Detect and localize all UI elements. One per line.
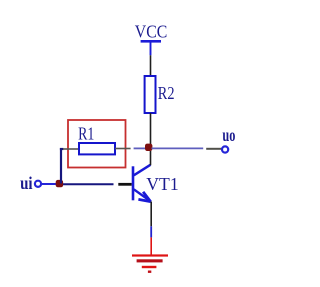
input terminal ui circle — [35, 181, 41, 187]
wire VCC bar to rail (blue segment) — [150, 43, 152, 56]
wire junction to output (purple) — [152, 147, 204, 149]
wire ground (red segment) — [150, 237, 152, 254]
wire corner at left of R1 (navy) — [60, 148, 64, 150]
ground symbol bar 1 — [132, 254, 168, 256]
base lead of VT1 (black) — [118, 183, 131, 186]
wire emitter to ground (black segment) — [150, 202, 152, 227]
svg-text:VCC: VCC — [135, 22, 168, 42]
VCC power bar symbol — [141, 40, 161, 43]
output terminal uo circle — [222, 146, 228, 152]
resistor R2 — [145, 76, 156, 113]
ground symbol bar 4 — [148, 271, 151, 273]
input junction node — [56, 180, 63, 187]
svg-text:R2: R2 — [158, 83, 175, 103]
wire input junction to base (navy) — [63, 183, 114, 185]
ground symbol bar 3 — [142, 266, 157, 268]
transistor VT1 emitter arrowhead — [138, 192, 150, 202]
wire to uo terminal (dark gray) — [206, 148, 221, 150]
transistor VT1 emitter line — [134, 189, 151, 201]
wire rail to R2 top (black segment) — [150, 55, 152, 76]
red highlight box around R1 — [68, 120, 126, 168]
wire input junction up to R1 branch (navy vertical) — [60, 148, 62, 184]
transistor VT1 base bar — [132, 166, 135, 200]
svg-text:ui: ui — [20, 173, 32, 193]
ground symbol bar 2 — [137, 259, 163, 262]
wire junction down to collector (black) — [150, 151, 152, 165]
junction node (collector node) — [145, 144, 152, 151]
svg-text:R1: R1 — [78, 124, 94, 144]
wire to junction (purple) — [134, 147, 145, 149]
svg-text:uo: uo — [222, 125, 235, 145]
wire ui circle to junction (blue) — [42, 183, 57, 185]
wire right of R1 (gray) — [115, 148, 131, 150]
resistor R1 — [79, 143, 115, 154]
wire R2 bottom to junction (black) — [150, 113, 152, 144]
transistor VT1 collector line — [134, 165, 151, 176]
wire left of R1 (gray) — [63, 148, 79, 150]
wire ground (blue segment) — [150, 226, 152, 237]
svg-text:VT1: VT1 — [146, 174, 178, 194]
